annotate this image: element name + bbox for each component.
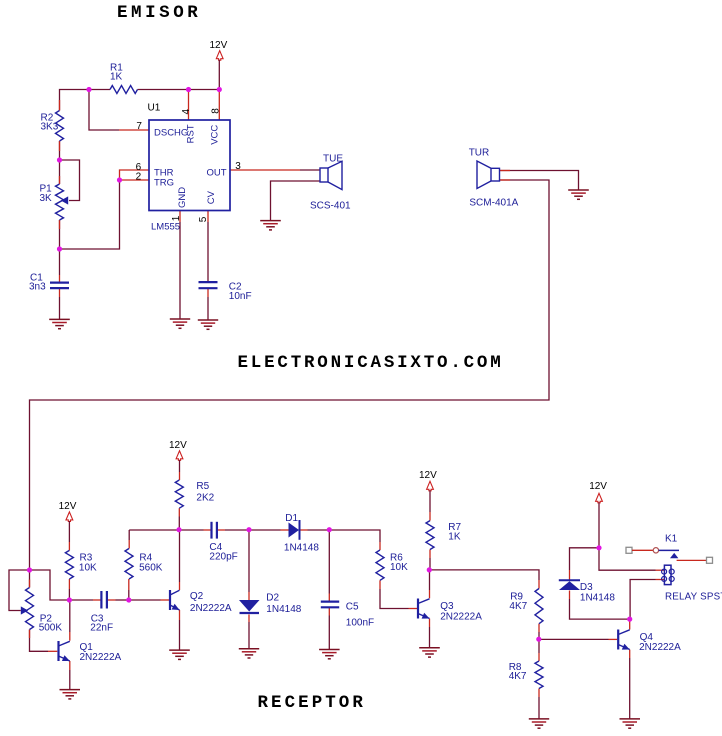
- pin3 OUT stub: [230, 169, 300, 171]
- svg-text:2K2: 2K2: [196, 493, 214, 504]
- svg-text:12V: 12V: [210, 40, 228, 51]
- ground R8: [529, 719, 549, 728]
- svg-text:2N2222A: 2N2222A: [190, 603, 232, 614]
- svg-text:D2: D2: [266, 592, 279, 603]
- node link-P2: [27, 567, 32, 572]
- wire coil bottom to Q4 node: [630, 580, 655, 620]
- node THR-TRG: [117, 177, 122, 182]
- relay switch pivot circle: [653, 548, 658, 553]
- relay K1 switch left terminal: [626, 547, 632, 553]
- transistor Q3: [418, 599, 430, 619]
- node D1-C5: [327, 527, 332, 532]
- svg-text:1K: 1K: [448, 531, 461, 542]
- node A: [67, 597, 72, 602]
- Q1 emitter wire: [69, 670, 71, 689]
- ground Q1: [60, 690, 81, 699]
- Q2 collector wire: [179, 530, 181, 582]
- wire pin7 stub: [119, 129, 149, 131]
- ground Q4: [620, 719, 641, 728]
- wire 12V to rail: [218, 60, 220, 90]
- capacitor C2: [199, 282, 218, 288]
- Q2 emitter stub: [179, 610, 181, 620]
- wire TRG net: [60, 180, 120, 249]
- resistor R4: [125, 549, 133, 580]
- R3 bottom stub: [68, 579, 70, 589]
- wire D2 node to D1: [249, 529, 281, 531]
- wire Q3 node to R9: [429, 570, 539, 580]
- svg-text:1N4148: 1N4148: [580, 592, 615, 603]
- potentiometer P1: [56, 184, 64, 220]
- R8 bottom stub: [538, 689, 540, 698]
- transistor Q4: [618, 630, 630, 650]
- wire OUT to TUE: [300, 169, 320, 171]
- svg-text:U1: U1: [148, 102, 161, 113]
- svg-text:10K: 10K: [390, 562, 408, 573]
- R8 to ground wire: [538, 697, 540, 719]
- ground Q2: [169, 650, 190, 659]
- R2 bottom stub: [59, 141, 61, 151]
- svg-text:2N2222A: 2N2222A: [440, 612, 482, 623]
- wire R6 to Q3 base: [380, 589, 409, 609]
- C5 top wire: [328, 530, 330, 594]
- P1 top stub: [59, 176, 61, 184]
- svg-text:1: 1: [171, 215, 182, 221]
- svg-text:100nF: 100nF: [346, 617, 374, 628]
- Q3 base stub: [409, 608, 418, 610]
- resistor R8: [535, 661, 543, 689]
- svg-text:LM555: LM555: [151, 221, 180, 232]
- C5 to ground wire: [328, 616, 330, 650]
- svg-text:5: 5: [198, 216, 209, 222]
- svg-text:TRG: TRG: [154, 178, 174, 189]
- P1 wiper arrow: [61, 196, 68, 204]
- transistor Q1: [59, 641, 70, 661]
- node R5-C4: [176, 527, 181, 532]
- ground C2: [198, 320, 218, 329]
- R9 bottom stub: [538, 624, 540, 632]
- wire TUR to receptor link: [30, 180, 550, 570]
- resistor R3: [65, 550, 73, 579]
- svg-text:C5: C5: [346, 602, 359, 613]
- Q3 emitter wire: [429, 627, 431, 648]
- GND pin wire: [179, 222, 181, 319]
- Q4 emitter stub: [629, 650, 631, 658]
- C4 right stub: [217, 529, 225, 531]
- P1 bottom wire: [59, 220, 61, 249]
- pin1 GND stub: [179, 211, 181, 223]
- wire node A to C3: [69, 599, 93, 601]
- wire pin4 RST: [188, 90, 190, 121]
- svg-text:RELAY SPST: RELAY SPST: [665, 592, 722, 603]
- power 12V R7: [419, 470, 437, 491]
- wire node to D3: [570, 548, 600, 570]
- capacitor C3: [101, 591, 107, 609]
- wire node to C4: [179, 529, 204, 531]
- power 12V relay: [589, 481, 607, 503]
- Q4 base stub: [609, 638, 618, 640]
- node C4-D2: [246, 527, 251, 532]
- svg-text:12V: 12V: [59, 501, 77, 512]
- Q4 emitter wire: [629, 658, 631, 719]
- D1 cathode stub: [300, 529, 308, 531]
- svg-text:3K3: 3K3: [41, 121, 59, 132]
- ground C5: [319, 650, 340, 659]
- P2 wiper arrow: [21, 606, 28, 614]
- ground C1: [49, 319, 70, 328]
- wire node to relay coil top: [599, 548, 656, 570]
- node Q3-R9: [427, 567, 432, 572]
- Q2 base stub: [161, 599, 170, 601]
- svg-text:3: 3: [235, 161, 241, 172]
- svg-text:1K: 1K: [110, 71, 123, 82]
- ground TUR: [568, 190, 589, 199]
- wire node B to Q2 base: [129, 599, 161, 601]
- node P1-C1: [57, 246, 62, 251]
- Q1 collector stub: [69, 632, 71, 641]
- resistor R5: [175, 480, 183, 508]
- svg-text:8: 8: [210, 108, 221, 114]
- C4 left stub: [204, 529, 212, 531]
- wire P2 wiper loop: [9, 570, 30, 611]
- ground D2: [239, 649, 259, 658]
- wire R9-R8 node to Q4 base: [539, 638, 609, 640]
- node Q4 collector: [627, 617, 632, 622]
- R4 top wire: [128, 530, 130, 540]
- svg-text:SCS-401: SCS-401: [310, 201, 351, 212]
- diode D2: [239, 600, 260, 613]
- R8 top wire: [538, 639, 540, 653]
- wire DSCHG vertical: [89, 90, 119, 131]
- wire C3 to node B: [116, 599, 129, 601]
- svg-text:OUT: OUT: [207, 168, 227, 179]
- R3 top stub: [68, 542, 70, 550]
- svg-text:2N2222A: 2N2222A: [80, 652, 122, 663]
- power 12V R5: [169, 440, 187, 460]
- relay coil: [662, 565, 675, 584]
- P1 top wire: [59, 160, 61, 184]
- resistor R6: [376, 550, 384, 580]
- P2 bottom stub: [29, 630, 31, 639]
- ground TUE: [260, 221, 281, 230]
- R6 top stub: [379, 542, 381, 550]
- wire TUE low to ground: [271, 181, 321, 220]
- svg-text:2: 2: [136, 172, 142, 183]
- wire D1 to C5 node: [308, 529, 330, 531]
- svg-text:22nF: 22nF: [90, 623, 113, 634]
- wire pin6 THR: [120, 170, 150, 181]
- D2 anode stub: [248, 592, 250, 600]
- R5 bottom stub: [178, 508, 180, 516]
- svg-text:TUE: TUE: [323, 153, 343, 164]
- svg-text:DSCHG: DSCHG: [154, 127, 188, 138]
- power 12V emitter: [210, 40, 228, 60]
- R5 top stub: [179, 472, 181, 480]
- D3 anode stub: [569, 591, 571, 600]
- R4 top stub: [128, 540, 130, 549]
- svg-text:220pF: 220pF: [209, 552, 237, 563]
- wire R4 to R5 node: [129, 529, 179, 531]
- TUR bottom stub: [500, 179, 511, 181]
- node B: [126, 597, 131, 602]
- C1 bottom stub: [59, 289, 61, 297]
- D2 to ground wire: [248, 622, 250, 648]
- CV to C2 wire: [207, 222, 209, 282]
- diode D1: [289, 520, 300, 540]
- Q1 emitter stub: [69, 661, 71, 670]
- svg-text:7: 7: [136, 121, 142, 132]
- relay switch wire right: [677, 559, 707, 561]
- svg-text:1N4148: 1N4148: [266, 604, 301, 615]
- node rail-DSCHG: [86, 87, 91, 92]
- node 12V-D3: [596, 545, 601, 550]
- coil bottom stub: [656, 579, 665, 581]
- capacitor C1: [50, 283, 69, 289]
- wire link to node A: [30, 570, 70, 600]
- svg-text:12V: 12V: [419, 470, 437, 481]
- R4 bottom wire: [128, 590, 130, 600]
- C3 left stub: [93, 599, 101, 601]
- svg-text:D1: D1: [285, 513, 298, 524]
- P2 top wire: [29, 570, 31, 588]
- pin5 CV stub: [207, 211, 209, 223]
- wire C4 to D2 node: [225, 529, 249, 531]
- svg-text:RECEPTOR: RECEPTOR: [258, 693, 366, 713]
- svg-text:R5: R5: [196, 481, 209, 492]
- Q4 collector stub: [629, 619, 631, 629]
- P2 top stub: [29, 580, 31, 588]
- wire TUR top to ground: [500, 171, 579, 190]
- C2 bottom stub: [207, 289, 209, 297]
- wire D3 to Q4 collector node: [570, 599, 630, 619]
- resistor R2: [56, 111, 64, 142]
- C1 top wire: [59, 249, 61, 275]
- potentiometer P2: [26, 588, 34, 630]
- svg-text:1N4148: 1N4148: [284, 542, 319, 553]
- op IC U1 LM555: [149, 120, 230, 211]
- R4 bottom stub: [128, 579, 130, 590]
- D1 anode stub: [281, 529, 289, 531]
- speaker TUE: [320, 161, 342, 189]
- svg-text:K1: K1: [665, 534, 678, 545]
- C5 bottom stub: [328, 608, 330, 616]
- diode D3: [559, 580, 580, 590]
- relay switch blade: [659, 549, 679, 551]
- svg-text:10K: 10K: [79, 562, 97, 573]
- node R9-R8: [536, 637, 541, 642]
- resistor R1: [110, 86, 138, 94]
- svg-text:Q3: Q3: [440, 601, 454, 612]
- R7 bottom stub: [429, 550, 431, 559]
- relay switch right terminal: [707, 557, 713, 563]
- Q1 collector wire: [69, 600, 71, 632]
- wire pin2 TRG: [120, 179, 150, 181]
- svg-text:EMISOR: EMISOR: [117, 3, 201, 23]
- wire 12V to R5: [179, 460, 181, 472]
- resistor R9: [535, 589, 543, 624]
- R8 top stub: [538, 653, 540, 661]
- wire 12V to D3 node: [598, 502, 600, 547]
- P2 bottom wire: [30, 630, 49, 652]
- relay contact arrow: [670, 553, 678, 558]
- R5 bottom wire: [178, 517, 180, 531]
- svg-text:Q2: Q2: [190, 591, 204, 602]
- wire pin8 VCC: [218, 90, 220, 121]
- wire rail left / R2 top: [60, 90, 111, 111]
- relay switch wire left: [632, 549, 653, 551]
- transistor Q2: [170, 590, 180, 610]
- wire C5 node to R6 top: [329, 530, 380, 542]
- svg-text:12V: 12V: [589, 481, 607, 492]
- R7 bottom wire: [429, 558, 431, 570]
- C1 to ground wire: [59, 297, 61, 319]
- svg-text:3n3: 3n3: [29, 282, 46, 293]
- C1 top stub: [59, 275, 61, 282]
- Q2 collector stub: [179, 582, 181, 590]
- node rail-pin4: [186, 87, 191, 92]
- P1 bottom stub: [59, 220, 61, 229]
- P1 wiper loop: [60, 160, 80, 201]
- R2 top stub: [59, 100, 61, 111]
- node R2-P1: [57, 157, 62, 162]
- Q3 collector stub: [429, 590, 431, 598]
- capacitor C5: [321, 602, 339, 608]
- ground Q3: [419, 648, 440, 657]
- svg-text:4K7: 4K7: [509, 601, 527, 612]
- TUR top stub: [500, 170, 511, 172]
- svg-text:10nF: 10nF: [229, 291, 252, 302]
- D2 top wire: [248, 530, 250, 592]
- R9 bottom wire: [538, 632, 540, 639]
- svg-text:2N2222A: 2N2222A: [639, 642, 681, 653]
- wire rail right: [138, 89, 220, 91]
- R6 bottom stub: [379, 580, 381, 589]
- svg-text:TUR: TUR: [469, 148, 490, 159]
- svg-text:3K: 3K: [40, 193, 53, 204]
- svg-text:4: 4: [181, 109, 192, 115]
- svg-text:GND: GND: [177, 187, 188, 208]
- node rail-12V: [217, 87, 222, 92]
- svg-text:SCM-401A: SCM-401A: [469, 198, 518, 209]
- svg-text:560K: 560K: [139, 562, 163, 573]
- C5 top stub: [328, 594, 330, 602]
- R9 top stub: [538, 580, 540, 589]
- speaker TUR: [477, 161, 500, 189]
- svg-text:RST: RST: [186, 124, 197, 143]
- capacitor C4: [212, 522, 217, 539]
- D2 cathode stub: [248, 615, 250, 623]
- svg-text:ELECTRONICASIXTO.COM: ELECTRONICASIXTO.COM: [238, 353, 504, 373]
- svg-text:CV: CV: [206, 190, 217, 204]
- Q3 emitter stub: [429, 619, 431, 627]
- resistor R7: [426, 521, 434, 550]
- coil top stub: [656, 569, 665, 571]
- svg-text:4K7: 4K7: [509, 671, 527, 682]
- ground U1 pin1: [170, 319, 190, 328]
- C2 to ground wire: [207, 297, 209, 320]
- C3 right stub: [107, 599, 115, 601]
- power 12V R3: [59, 501, 77, 522]
- wire 12V to R3: [68, 521, 70, 542]
- Q3 collector wire: [429, 570, 431, 590]
- D3 cathode stub: [569, 570, 571, 580]
- Q2 emitter wire: [179, 620, 181, 650]
- svg-text:12V: 12V: [169, 440, 187, 451]
- svg-text:VCC: VCC: [209, 125, 220, 145]
- Q1 base stub: [48, 650, 57, 652]
- R2 bottom wire: [59, 141, 61, 160]
- R3 bottom wire: [68, 589, 70, 600]
- R7 top stub: [429, 512, 431, 521]
- wire 12V to R7: [429, 490, 431, 512]
- svg-text:500K: 500K: [39, 623, 63, 634]
